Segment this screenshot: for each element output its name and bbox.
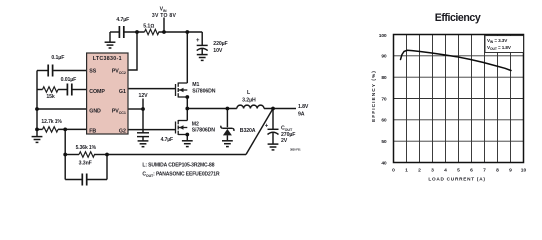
svg-text:5: 5 — [457, 168, 460, 174]
svg-text:1.8V: 1.8V — [298, 104, 309, 110]
svg-text:10: 10 — [521, 168, 527, 174]
svg-text:COUT: PANASONIC EEFUE0D271R: COUT: PANASONIC EEFUE0D271R — [142, 172, 220, 178]
svg-text:50: 50 — [381, 139, 387, 145]
svg-text:7: 7 — [483, 168, 486, 174]
svg-text:40: 40 — [381, 160, 387, 166]
svg-text:+: + — [196, 38, 200, 44]
svg-text:4: 4 — [444, 168, 447, 174]
svg-text:3.2µH: 3.2µH — [242, 98, 256, 104]
svg-text:3830 F01: 3830 F01 — [290, 148, 301, 152]
svg-text:EFFICIENCY (%): EFFICIENCY (%) — [371, 70, 377, 122]
svg-text:B320A: B320A — [240, 128, 256, 134]
svg-text:100: 100 — [379, 33, 387, 39]
svg-text:M2: M2 — [192, 122, 199, 128]
svg-text:G1: G1 — [119, 89, 126, 95]
svg-text:0.01µF: 0.01µF — [61, 77, 77, 83]
svg-text:4.7µF: 4.7µF — [161, 137, 173, 143]
svg-text:G2: G2 — [119, 128, 126, 134]
svg-text:5.1Ω: 5.1Ω — [143, 24, 154, 30]
svg-text:4.7µF: 4.7µF — [116, 17, 129, 23]
svg-text:60: 60 — [381, 118, 387, 124]
svg-text:3V TO 8V: 3V TO 8V — [152, 13, 177, 19]
svg-text:8: 8 — [496, 168, 499, 174]
svg-text:LOAD CURRENT (A): LOAD CURRENT (A) — [428, 177, 485, 182]
svg-text:90: 90 — [381, 54, 387, 60]
svg-text:FB: FB — [89, 128, 96, 134]
svg-text:L: L — [247, 90, 251, 96]
svg-text:3.3nF: 3.3nF — [79, 161, 92, 167]
svg-text:COUT: COUT — [281, 126, 293, 132]
svg-text:2V: 2V — [281, 138, 288, 144]
svg-text:9A: 9A — [298, 111, 305, 117]
svg-text:0: 0 — [392, 168, 395, 174]
svg-text:GND: GND — [89, 109, 101, 115]
svg-text:SS: SS — [89, 69, 96, 75]
svg-text:10V: 10V — [213, 48, 223, 54]
svg-text:+: + — [265, 124, 269, 130]
svg-text:LTC3830-1: LTC3830-1 — [93, 56, 122, 62]
svg-text:70: 70 — [381, 96, 387, 102]
svg-text:12.7k 1%: 12.7k 1% — [41, 119, 62, 125]
svg-text:3: 3 — [431, 168, 434, 174]
svg-text:2: 2 — [418, 168, 421, 174]
svg-text:M1: M1 — [192, 82, 199, 88]
svg-text:5.36k 1%: 5.36k 1% — [76, 145, 97, 151]
svg-text:0.1µF: 0.1µF — [51, 55, 64, 61]
svg-text:12V: 12V — [139, 93, 149, 99]
svg-text:L: SUMIDA CDEP105-3R2MC-88: L: SUMIDA CDEP105-3R2MC-88 — [142, 162, 214, 168]
svg-text:1: 1 — [405, 168, 408, 174]
svg-text:15k: 15k — [46, 94, 55, 100]
svg-text:220µF: 220µF — [213, 41, 227, 47]
svg-text:6: 6 — [470, 168, 473, 174]
svg-text:COMP: COMP — [89, 89, 105, 95]
svg-text:Efficiency: Efficiency — [435, 12, 481, 24]
svg-text:Si7806DN: Si7806DN — [192, 88, 215, 94]
svg-text:Si7806DN: Si7806DN — [192, 128, 215, 134]
svg-text:9: 9 — [509, 168, 512, 174]
svg-text:80: 80 — [381, 75, 387, 81]
